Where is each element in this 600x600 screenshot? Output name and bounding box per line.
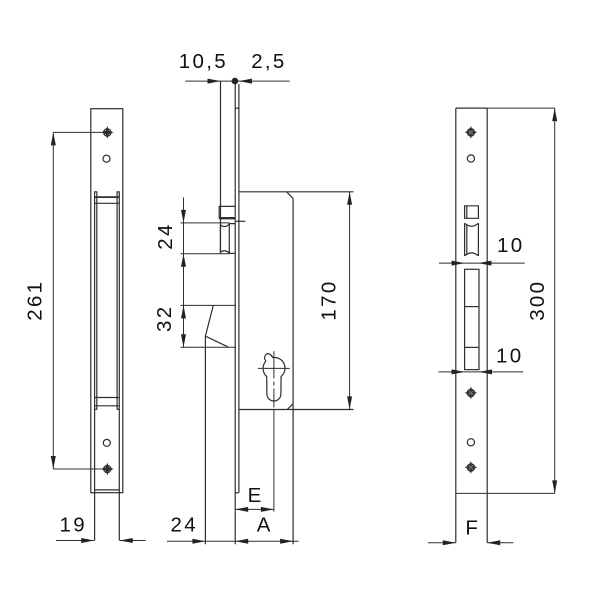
svg-text:10,5: 10,5 (179, 50, 228, 73)
dim bottom 24/A line (167, 540, 299, 542)
svg-text:24: 24 (171, 514, 198, 537)
arrow 170 top (347, 192, 352, 205)
latch slot wavy (465, 223, 479, 256)
deadbolt slot divider 2 (465, 346, 479, 348)
channel bottom rung 2 (95, 405, 120, 407)
arrow 10 first left (452, 261, 465, 266)
dim 19 line (56, 540, 146, 542)
cylinder keyhole profile (263, 354, 285, 401)
svg-text:261: 261 (24, 280, 47, 321)
dim 10 second line (439, 371, 524, 373)
left strip step line (95, 489, 120, 491)
arrow 10 second left (452, 369, 465, 374)
dim 24 top line (181, 198, 230, 348)
channel top rung 2 (95, 202, 120, 204)
left strip wall right (118, 192, 120, 541)
arrow 24 bottom dim (192, 539, 205, 544)
latch bolt (220, 224, 235, 254)
hole right bottom (467, 439, 474, 446)
channel inner wall right (116, 192, 118, 409)
dim 32 extensions (181, 305, 237, 347)
channel bottom caps (94, 408, 120, 410)
svg-text:32: 32 (153, 305, 176, 332)
left strip wall left (94, 192, 96, 541)
arrow 32 top (181, 305, 186, 318)
arrow 300 bottom (552, 480, 557, 493)
dim 300 line (554, 108, 556, 493)
arrow 24 bottom outside (181, 254, 186, 267)
hole right top (467, 155, 474, 162)
dim 170 line (349, 192, 351, 410)
dot 10,5 (232, 78, 239, 85)
svg-text:A: A (257, 514, 273, 537)
channel inner wall left (96, 192, 98, 409)
svg-text:24: 24 (154, 222, 177, 249)
latch window (465, 206, 479, 219)
arrow A right (280, 539, 293, 544)
left faceplate outline (91, 109, 123, 493)
dim E line (235, 508, 274, 510)
svg-text:19: 19 (60, 514, 87, 537)
latch bolt stub in case (236, 220, 245, 222)
channel bottom rung 1 (95, 397, 120, 399)
screw left bottom (101, 463, 114, 476)
arrow 19 right (120, 538, 133, 543)
arrow 10 first right (478, 261, 491, 266)
cylinder centerline (273, 351, 275, 407)
svg-text:10: 10 (496, 345, 523, 368)
channel top caps (94, 191, 120, 193)
arrow A left (235, 539, 248, 544)
latch block (219, 206, 235, 218)
hole left bottom (103, 439, 110, 446)
right plate top edge (456, 107, 487, 109)
faceplate back line (234, 81, 236, 544)
screw right mid (465, 387, 478, 400)
svg-text:E: E (248, 484, 264, 507)
arrow 2,5 (239, 79, 252, 84)
right plate right edge (486, 108, 488, 543)
dim top line 10,5/2,5 (185, 80, 289, 82)
arrow E right (261, 507, 274, 512)
right 300 bottom extension (456, 492, 555, 494)
arrow 261 bottom (51, 456, 56, 469)
arrow 170 bottom (347, 396, 352, 409)
lock case outline (239, 192, 354, 545)
arrow 19 left (81, 538, 94, 543)
faceplate front line (220, 81, 222, 253)
deadbolt slot divider 1 (465, 306, 479, 308)
screw right top (465, 126, 478, 139)
svg-text:170: 170 (318, 279, 341, 320)
channel top rung 1 (95, 196, 120, 198)
svg-text:2,5: 2,5 (251, 50, 286, 73)
deadbolt slot (465, 269, 479, 369)
plate bottom tick (235, 492, 239, 494)
arrow F left (443, 540, 456, 545)
arrow 261 top (51, 132, 56, 145)
arrow 300 top (552, 108, 557, 121)
cylinder crosshair horizontal (258, 367, 290, 369)
dim 261 line (53, 132, 107, 469)
svg-text:10: 10 (497, 234, 524, 257)
svg-text:F: F (465, 517, 480, 540)
hole left top (103, 155, 110, 162)
screws and holes (101, 126, 477, 476)
right plate left edge (455, 108, 457, 543)
right top extension (487, 107, 555, 109)
dim 10 first line (439, 262, 525, 264)
dimension graphics (53, 81, 554, 543)
mounting plate line (238, 84, 240, 493)
deadbolt (205, 305, 227, 544)
arrow 32 bottom (181, 334, 186, 347)
arrow 10 second right (479, 369, 492, 374)
dimension texts (24, 50, 549, 540)
arrowheads (51, 78, 557, 546)
screw right bottom (465, 461, 478, 474)
arrow F right (487, 540, 500, 545)
E extension line (273, 410, 275, 512)
svg-text:300: 300 (526, 280, 549, 321)
plate top tick (235, 107, 239, 109)
dim F line (428, 542, 513, 544)
arrow 10,5 (208, 79, 221, 84)
arrow E left (235, 507, 248, 512)
arrow 24 top outside (181, 210, 186, 223)
screw left top (101, 126, 114, 139)
